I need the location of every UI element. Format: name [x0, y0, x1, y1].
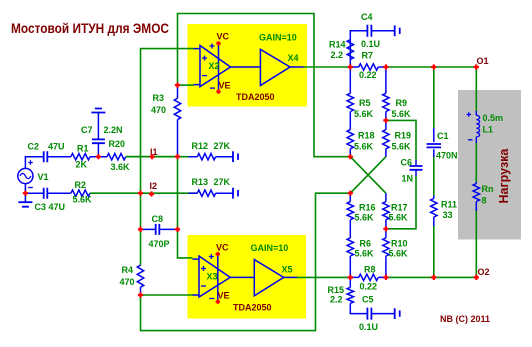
node R14/R7 — [348, 64, 353, 69]
wire X5out-R8 — [297, 276, 350, 278]
svg-text:C6: C6 — [401, 158, 413, 168]
capacitor C2 — [44, 151, 48, 162]
buffer X5 — [254, 260, 283, 296]
resistor R17 — [383, 202, 389, 220]
svg-text:470: 470 — [120, 277, 135, 287]
svg-text:Rn: Rn — [482, 184, 494, 194]
svg-text:R1: R1 — [77, 144, 89, 154]
resistor R12 — [197, 154, 215, 160]
node R3 bottom — [175, 154, 180, 159]
wire R14 top — [349, 40, 351, 67]
node R17 bottom — [383, 226, 388, 231]
svg-text:2.2: 2.2 — [330, 295, 343, 305]
resistor R15 — [347, 287, 353, 303]
amplifier block 1 background — [188, 24, 308, 107]
resistor R8 — [359, 274, 379, 280]
svg-text:X3: X3 — [207, 272, 218, 282]
svg-text:C3 47U: C3 47U — [35, 202, 66, 212]
amplifier block 2 background — [188, 235, 307, 319]
svg-text:C2: C2 — [28, 142, 40, 152]
resistor R4 — [137, 265, 143, 287]
node V1-C3-ground — [23, 191, 28, 196]
svg-text:R17: R17 — [391, 203, 408, 213]
wire X5 out — [284, 276, 297, 278]
svg-text:C4: C4 — [361, 12, 373, 22]
svg-text:5.6K: 5.6K — [389, 249, 409, 259]
inductor L1 — [476, 115, 479, 137]
capacitor C8 — [156, 224, 160, 235]
svg-text:C5: C5 — [362, 295, 374, 305]
node R18 bottom — [348, 154, 353, 159]
svg-text:0.1U: 0.1U — [361, 39, 380, 49]
resistor R13 — [197, 190, 215, 196]
node I1 — [150, 154, 155, 159]
svg-text:R16: R16 — [359, 203, 376, 213]
node R16 top — [348, 191, 353, 196]
svg-text:33: 33 — [443, 210, 453, 220]
svg-text:2.2N: 2.2N — [104, 125, 123, 135]
op-amp X2 — [200, 46, 231, 87]
ground above C7 — [91, 109, 105, 113]
svg-text:X4: X4 — [288, 53, 299, 63]
wire bottom loop left — [141, 193, 351, 330]
capacitor C1 — [427, 144, 442, 147]
svg-text:TDA2050: TDA2050 — [233, 303, 272, 313]
terminal after R12 — [233, 151, 238, 162]
resistor R11 — [431, 199, 437, 218]
wire I2-R13 — [141, 192, 198, 194]
pin VE X3 — [216, 300, 220, 304]
svg-text:2K: 2K — [76, 160, 88, 170]
svg-text:R2: R2 — [75, 180, 87, 190]
wire R15 leads — [350, 277, 367, 313]
wire Rn-O2 — [475, 211, 477, 277]
svg-text:R8: R8 — [364, 265, 376, 275]
svg-text:GAIN=10: GAIN=10 — [251, 243, 289, 253]
wire C8left-R4 — [140, 229, 142, 265]
wire C1 lower pin — [433, 149, 435, 157]
wire X2- input — [178, 84, 194, 86]
wire C6 top — [386, 120, 416, 160]
node R6 bottom — [348, 275, 353, 280]
svg-text:X5: X5 — [282, 265, 293, 275]
svg-text:I2: I2 — [150, 181, 158, 191]
svg-text:8: 8 — [482, 196, 487, 206]
svg-text:VE: VE — [218, 291, 230, 301]
svg-text:R13: R13 — [192, 177, 209, 187]
node O1 corner — [474, 64, 479, 69]
wire C1 blue lead — [433, 128, 435, 142]
wire cross 2 — [350, 157, 386, 194]
node R4 bottom / X3- — [138, 292, 143, 297]
wire C8 leads — [141, 228, 178, 230]
wire R9 leads — [385, 67, 387, 157]
capacitor C3 — [44, 188, 48, 199]
wire C3-R2 — [48, 192, 71, 194]
capacitor C7 — [92, 139, 105, 143]
node I2 — [149, 191, 154, 196]
buffer X4 — [260, 49, 290, 85]
svg-text:5.6K: 5.6K — [355, 249, 375, 259]
resistor R14 — [347, 40, 353, 60]
wire V1 top — [25, 157, 43, 162]
source V1 — [18, 160, 33, 190]
svg-text:R14: R14 — [329, 40, 346, 50]
svg-text:Мостовой ИТУН для ЭМОС: Мостовой ИТУН для ЭМОС — [11, 21, 169, 36]
svg-text:0.22: 0.22 — [360, 282, 378, 292]
wire X4out-R7 — [304, 66, 351, 68]
svg-text:R7: R7 — [362, 51, 374, 61]
svg-text:VC: VC — [216, 243, 229, 253]
svg-text:5.6K: 5.6K — [392, 109, 412, 119]
node O2 corner — [474, 275, 479, 280]
wire V1 bottom — [24, 190, 26, 193]
node C1 top — [431, 64, 436, 69]
wire L1 top lead — [475, 111, 477, 115]
node C7 junction — [96, 154, 101, 159]
label L1 plus — [467, 112, 471, 116]
svg-text:2.2: 2.2 — [331, 50, 344, 60]
svg-text:VC: VC — [217, 32, 230, 42]
svg-text:R19: R19 — [395, 131, 412, 141]
resistor R2 — [71, 190, 90, 196]
svg-text:27K: 27K — [214, 177, 231, 187]
svg-text:C7: C7 — [81, 125, 93, 135]
wire R1-junction — [90, 156, 107, 158]
wire R17 leads — [385, 193, 387, 277]
wire X4 out — [290, 66, 304, 68]
svg-text:O2: O2 — [478, 267, 490, 277]
wire C4-terminal — [372, 30, 395, 32]
svg-text:VE: VE — [219, 81, 231, 91]
svg-text:5.6K: 5.6K — [355, 213, 375, 223]
svg-text:0.1U: 0.1U — [359, 322, 378, 332]
node R8/R10 — [383, 275, 388, 280]
svg-text:C8: C8 — [152, 214, 164, 224]
wire R12-terminal — [216, 156, 233, 158]
capacitor C6 — [410, 166, 423, 170]
wire I1 row — [126, 156, 189, 158]
resistor R20 — [107, 154, 126, 160]
wire Rn leads — [475, 182, 477, 211]
node C1 bottom — [431, 275, 436, 280]
wire C4 branch — [350, 31, 367, 40]
wire C1-R11 — [433, 157, 435, 196]
pin VC X3 — [216, 252, 220, 256]
wire C2-R1 — [48, 156, 71, 158]
wire R16-R6 — [349, 193, 351, 277]
node C8 left — [138, 227, 143, 232]
svg-text:R18: R18 — [358, 131, 375, 141]
wire C5-terminal — [372, 313, 395, 315]
wire top loop — [178, 14, 351, 157]
resistor R18 — [347, 130, 353, 149]
wire R11 top pin — [433, 196, 435, 199]
label L1 minus — [468, 139, 472, 141]
pin VC X2 — [216, 41, 220, 45]
terminal after C5 — [395, 308, 400, 319]
node I2 junction — [138, 191, 143, 196]
wire C7 stem — [97, 113, 99, 157]
wire X2-X4 — [231, 66, 261, 68]
svg-text:R12: R12 — [192, 141, 209, 151]
svg-text:NB (C) 2011: NB (C) 2011 — [440, 314, 490, 324]
terminal after C4 — [395, 25, 400, 36]
wire R2-I2 — [90, 192, 141, 194]
svg-text:0.22: 0.22 — [359, 70, 377, 80]
svg-text:1N: 1N — [402, 174, 414, 184]
svg-text:3.6K: 3.6K — [111, 162, 131, 172]
wire X3- input — [141, 294, 193, 296]
wire cross 1 — [350, 157, 386, 194]
wire X3-X5 — [230, 276, 254, 278]
wire I2-C8 left — [140, 193, 142, 229]
svg-text:R4: R4 — [122, 265, 134, 275]
capacitor C4 — [367, 25, 371, 37]
resistor R6 — [347, 238, 353, 256]
svg-text:470P: 470P — [149, 239, 170, 249]
wire O1-L1 — [475, 67, 477, 111]
wire X2+ input — [141, 49, 194, 194]
node R7/R9 — [383, 64, 388, 69]
resistor R7 — [359, 64, 379, 70]
resistor R1 — [71, 154, 90, 160]
node X2- / R3 top — [175, 83, 180, 88]
svg-text:R20: R20 — [109, 139, 126, 149]
resistor R5 — [347, 93, 353, 111]
svg-text:470: 470 — [151, 105, 166, 115]
svg-text:Нагрузка: Нагрузка — [497, 148, 511, 204]
svg-text:C1: C1 — [437, 131, 449, 141]
wire R3 pins — [177, 85, 179, 157]
svg-text:R15: R15 — [328, 285, 345, 295]
svg-text:GAIN=10: GAIN=10 — [259, 33, 297, 43]
node C8 right — [175, 227, 180, 232]
resistor Rn — [473, 184, 479, 202]
svg-text:R9: R9 — [396, 98, 408, 108]
op-amp X3 — [199, 256, 230, 297]
svg-text:R5: R5 — [359, 98, 371, 108]
wire R13-terminal — [216, 192, 233, 194]
resistor R10 — [383, 238, 389, 256]
wire R20-I1 — [126, 156, 178, 158]
wire R11 bottom pin — [433, 217, 435, 226]
svg-text:5.6K: 5.6K — [354, 109, 374, 119]
svg-text:0.5m: 0.5m — [483, 113, 504, 123]
svg-text:O1: O1 — [477, 56, 489, 66]
wire R11-O2 — [433, 226, 435, 277]
svg-text:47U: 47U — [48, 142, 65, 152]
svg-text:5.6K: 5.6K — [354, 142, 374, 152]
resistor R16 — [347, 202, 353, 220]
wire L1 bottom lead — [475, 137, 477, 143]
svg-text:27K: 27K — [214, 141, 231, 151]
wire V1-C3 — [25, 192, 43, 194]
svg-text:470N: 470N — [436, 151, 458, 161]
svg-text:R6: R6 — [360, 239, 372, 249]
wire R5-R18 — [349, 67, 351, 157]
svg-text:R10: R10 — [391, 239, 408, 249]
resistor R19 — [383, 130, 389, 149]
wire O1 row — [386, 66, 476, 68]
wire C8right-X3+ — [178, 229, 193, 258]
resistor R3 — [174, 98, 180, 119]
svg-text:X2: X2 — [209, 61, 220, 71]
ground V1 — [24, 193, 26, 202]
capacitor C5 — [367, 308, 371, 320]
load box background — [458, 90, 521, 240]
wire R7 leads — [350, 66, 386, 68]
wire R13 lead — [189, 192, 198, 194]
pin VE X2 — [216, 89, 220, 93]
wire R8 leads — [350, 276, 386, 278]
wire R4 pins — [140, 287, 142, 295]
svg-text:R11: R11 — [441, 200, 457, 210]
wire C1 top lead — [433, 67, 435, 128]
svg-text:R3: R3 — [153, 93, 165, 103]
svg-text:5.6K: 5.6K — [73, 195, 93, 205]
svg-text:5.6K: 5.6K — [389, 213, 409, 223]
wire C6 bottom — [386, 176, 416, 229]
terminal after R13 — [233, 188, 238, 199]
svg-text:V1: V1 — [38, 172, 49, 182]
node R9 bottom — [383, 118, 388, 123]
wire C6 pins — [415, 160, 417, 176]
wire I1-R12 — [178, 156, 198, 158]
wire O2 row — [386, 276, 476, 278]
svg-text:TDA2050: TDA2050 — [236, 92, 275, 102]
wire I1-C8 right — [177, 157, 179, 230]
wire L1-Rn — [475, 143, 477, 182]
svg-text:L1: L1 — [483, 125, 494, 135]
resistor R9 — [383, 93, 389, 111]
svg-text:5.6K: 5.6K — [392, 142, 412, 152]
